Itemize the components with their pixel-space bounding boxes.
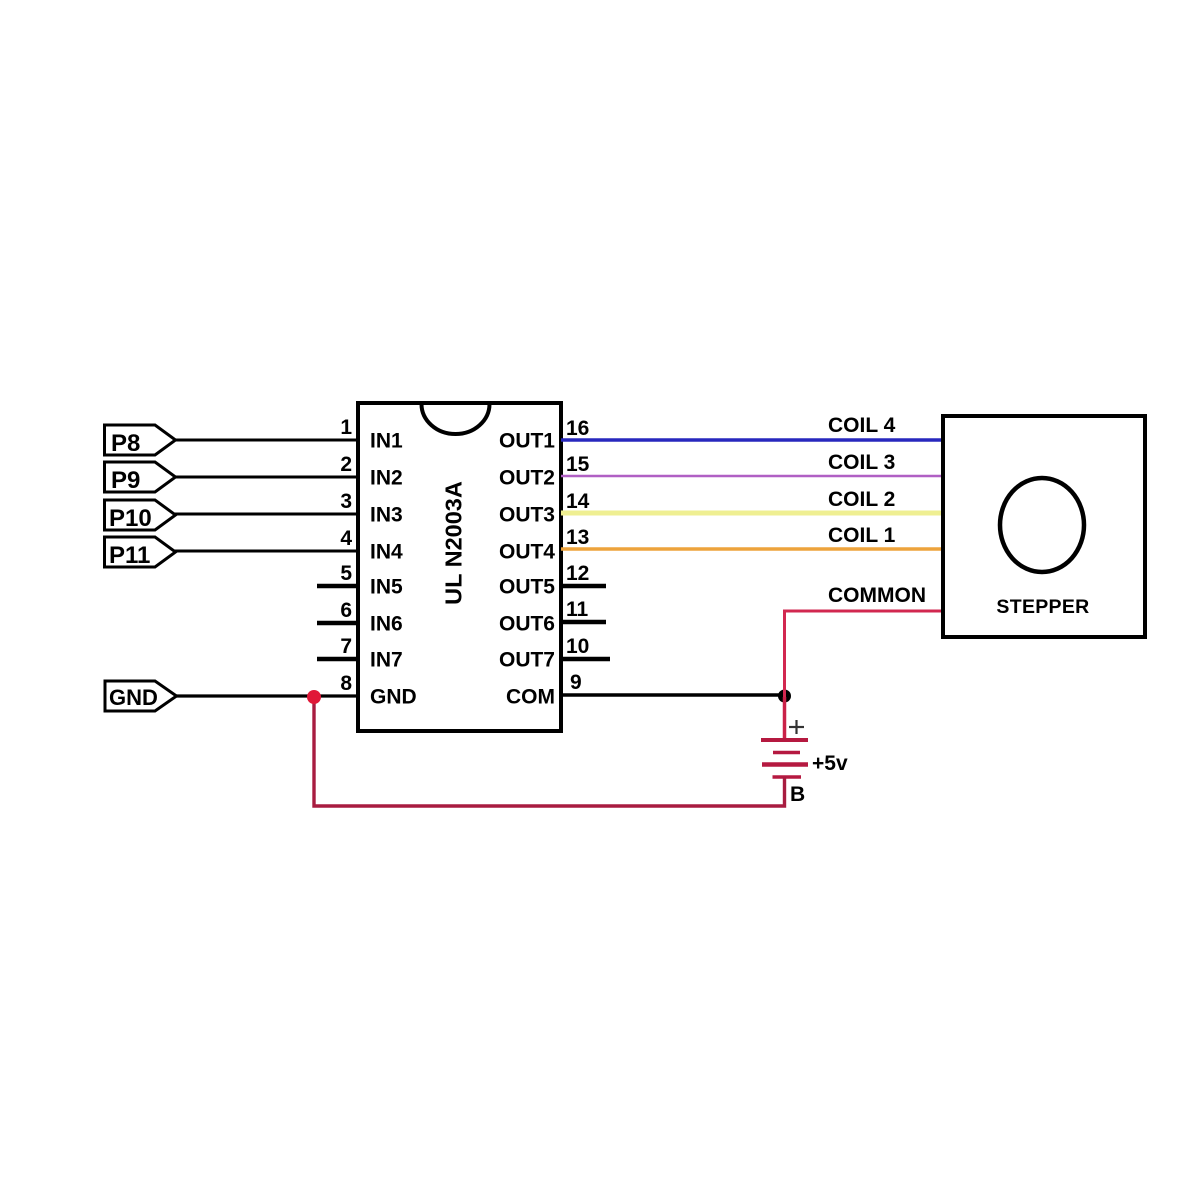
svg-text:COIL 4: COIL 4 — [828, 414, 896, 437]
svg-text:COIL 2: COIL 2 — [828, 488, 895, 511]
wire P8 to IN1 — [173, 439, 358, 442]
pin stub OUT7 (pin 10) — [563, 657, 610, 662]
svg-text:+5v: +5v — [812, 752, 848, 775]
wire P11 to IN4 — [173, 550, 358, 553]
connector tag P11 — [105, 537, 176, 569]
svg-text:1: 1 — [340, 416, 352, 439]
svg-text:4: 4 — [340, 527, 352, 550]
svg-text:9: 9 — [570, 671, 582, 694]
svg-text:IN5: IN5 — [370, 576, 403, 599]
svg-text:IN4: IN4 — [370, 541, 403, 564]
battery plate long top — [761, 738, 808, 742]
svg-text:GND: GND — [370, 686, 417, 709]
junction GND node red — [307, 690, 321, 704]
svg-text:UL N2003A: UL N2003A — [441, 481, 467, 605]
IC U1 ULN2003A body — [358, 403, 561, 731]
IC notch — [422, 404, 490, 434]
svg-text:3: 3 — [340, 490, 352, 513]
svg-text:5: 5 — [340, 562, 352, 585]
svg-text:8: 8 — [340, 672, 352, 695]
pin stub IN7 (pin 7) — [317, 657, 358, 662]
svg-text:10: 10 — [566, 635, 589, 658]
svg-text:13: 13 — [566, 526, 589, 549]
wire COM pin 9 — [561, 693, 785, 697]
wire OUT4 coil1 orange — [561, 547, 943, 551]
svg-text:OUT6: OUT6 — [499, 613, 555, 636]
svg-text:IN7: IN7 — [370, 649, 403, 672]
connector tag P9 — [105, 462, 176, 494]
svg-text:P8: P8 — [111, 430, 140, 457]
svg-text:7: 7 — [340, 635, 352, 658]
svg-text:IN1: IN1 — [370, 430, 403, 453]
svg-text:GND: GND — [109, 685, 158, 710]
svg-text:6: 6 — [340, 599, 352, 622]
wire GND to pin 8 — [174, 694, 358, 697]
svg-text:P9: P9 — [111, 467, 140, 494]
wire OUT2 coil3 purple — [561, 475, 943, 478]
connector tag GND — [105, 681, 177, 711]
svg-text:15: 15 — [566, 453, 590, 476]
svg-text:COIL 1: COIL 1 — [828, 524, 896, 547]
svg-text:OUT7: OUT7 — [499, 649, 555, 672]
svg-text:OUT2: OUT2 — [499, 467, 555, 490]
svg-text:STEPPER: STEPPER — [996, 596, 1089, 618]
stepper motor box — [943, 416, 1145, 637]
svg-text:IN3: IN3 — [370, 504, 403, 527]
svg-text:11: 11 — [566, 598, 589, 621]
svg-text:COIL 3: COIL 3 — [828, 451, 895, 474]
svg-text:P11: P11 — [109, 542, 150, 569]
svg-text:2: 2 — [340, 453, 352, 476]
battery plate long — [762, 762, 808, 767]
wire battery negative to GND loop — [314, 697, 785, 806]
svg-text:14: 14 — [566, 490, 590, 513]
wire OUT3 coil2 yellow — [561, 511, 943, 516]
wire junction to battery positive — [783, 697, 787, 740]
junction COM node — [778, 690, 791, 703]
battery B — [761, 720, 848, 806]
svg-text:P10: P10 — [109, 505, 152, 532]
battery plate short bottom — [773, 775, 802, 779]
svg-text:IN2: IN2 — [370, 467, 403, 490]
svg-text:OUT5: OUT5 — [499, 576, 555, 599]
wire P9 to IN2 — [173, 476, 358, 479]
svg-text:OUT3: OUT3 — [499, 504, 555, 527]
svg-text:B: B — [790, 783, 805, 806]
wire COMMON red — [785, 611, 944, 697]
pin stub OUT6 (pin 11) — [563, 620, 606, 625]
svg-text:12: 12 — [566, 562, 589, 585]
pin stub IN6 (pin 6) — [317, 621, 358, 626]
battery plus sign — [789, 720, 804, 734]
wire P10 to IN3 — [173, 513, 358, 516]
svg-text:IN6: IN6 — [370, 613, 403, 636]
svg-text:OUT1: OUT1 — [499, 430, 555, 453]
pin stub OUT5 (pin 12) — [563, 584, 606, 589]
svg-text:16: 16 — [566, 417, 589, 440]
battery plate short — [773, 751, 800, 755]
wire OUT1 coil4 blue — [561, 438, 943, 442]
pin stub IN5 (pin 5) — [317, 584, 358, 589]
svg-text:COMMON: COMMON — [828, 584, 926, 607]
svg-text:OUT4: OUT4 — [499, 541, 555, 564]
svg-text:COM: COM — [506, 686, 555, 709]
connector tag P10 — [105, 500, 176, 532]
connector tag P8 — [105, 425, 176, 457]
